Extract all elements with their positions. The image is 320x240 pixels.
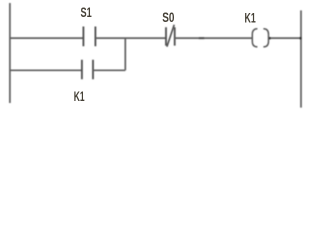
wire left rail to S1: [10, 37, 84, 39]
junction coil to wire: [269, 37, 271, 39]
contact S1: [83, 27, 95, 47]
wire joint (dark overlap on S0-coil wire): [199, 37, 204, 39]
svg-text:K1: K1: [245, 10, 256, 26]
wire contact K1 to branch: [93, 69, 125, 71]
junction branch node: [124, 38, 126, 70]
wire left rail to contact K1: [10, 69, 82, 71]
left power rail: [9, 3, 11, 103]
svg-text:S1: S1: [81, 4, 92, 20]
wire coil K1 to right rail: [269, 37, 302, 39]
wire S1 to S0: [95, 37, 166, 39]
contact S0 (NC): [166, 25, 175, 47]
svg-text:S0: S0: [162, 9, 174, 25]
label K1 (contact): [74, 88, 85, 104]
right power rail: [300, 10, 302, 107]
label S0: [162, 9, 174, 25]
label K1 (coil): [245, 10, 256, 26]
label S1: [81, 4, 92, 20]
svg-text:K1: K1: [74, 88, 85, 104]
junction wire to right rail: [300, 37, 302, 39]
wire S0 to coil K1: [175, 37, 253, 39]
coil K1: [252, 29, 268, 47]
contact K1: [82, 60, 93, 79]
